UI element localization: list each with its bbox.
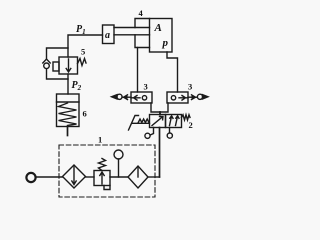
lubricator L1 internal wick [137, 168, 139, 177]
amplifier U4 main box [150, 19, 173, 53]
svg-text:2: 2 [189, 120, 193, 130]
amplifier U4 input box a [103, 25, 115, 44]
throttle 3b exhaust arrowhead [192, 95, 196, 100]
valve V2 detent baseline [133, 122, 150, 124]
wire source to filter [36, 176, 63, 178]
wire supply riser from FRL to valve 2 [159, 128, 161, 178]
gauge G1 dial [114, 150, 123, 159]
wire bypass loop around valve 5 [47, 48, 69, 79]
accumulator 6 box [57, 94, 80, 127]
wire left riser to throttle 3a [137, 48, 139, 93]
lubricator L1 diamond [128, 166, 148, 188]
svg-text:6: 6 [83, 109, 87, 119]
svg-text:3: 3 [188, 82, 192, 92]
throttle 3b exhaust triangle [203, 95, 209, 99]
regulator R1 box [94, 171, 110, 186]
wire main line valve5 to accumulator 6 [67, 74, 69, 94]
amplifier U4 rod double line [114, 27, 150, 29]
svg-text:1: 1 [98, 135, 102, 145]
valve V2 detent notches [138, 119, 149, 123]
wire regulator to lubricator [110, 176, 128, 178]
throttle 3a exhaust arrowhead [124, 95, 128, 100]
throttle 3a exhaust triangle [112, 95, 118, 99]
wire filter to regulator [86, 176, 95, 178]
throttle 3b internal arrow [179, 96, 188, 101]
wire P1 line and main vertical down to valve 5 [68, 35, 103, 57]
wire right step riser to throttle 3b [167, 52, 178, 92]
throttle 3b internal circle [171, 96, 175, 100]
svg-text:3: 3 [144, 82, 148, 92]
amplifier U4 flange outline [135, 19, 150, 28]
gauge G1 stem [118, 159, 120, 177]
throttle 3a silencer circle [117, 94, 122, 99]
check valve V7 seat [43, 59, 50, 63]
valve V2 left position box [150, 115, 166, 128]
throttle 3b silencer circle [197, 94, 202, 99]
reducing valve 5 pilot box [53, 62, 59, 71]
regulator R1 relief tab [104, 186, 110, 190]
filter F1 diamond [63, 165, 86, 188]
svg-text:5: 5 [81, 47, 85, 57]
throttle valve 3a box [131, 92, 152, 103]
regulator R1 adjust spring [99, 159, 106, 171]
throttle 3a internal arrow [131, 96, 140, 101]
throttle 3a exhaust line [122, 96, 131, 98]
svg-text:A: A [154, 22, 162, 34]
valve V2 right position box [166, 115, 182, 128]
wire stub below accumulator 6 [67, 127, 69, 136]
wire bus joining throttles to valve 2 [151, 103, 168, 112]
valve V2 lever actuator [129, 116, 139, 131]
reducing valve 5 main box [59, 57, 78, 74]
accumulator 6 spring [59, 103, 77, 126]
compressed air source [26, 173, 35, 182]
reducing valve 5 spring [78, 59, 87, 66]
check valve V7 ball [44, 63, 50, 69]
throttle valve 3b box [167, 92, 188, 103]
valve V2 return spring [182, 115, 191, 120]
filter F1 internal arrow [72, 167, 76, 185]
accumulator 6 divider [57, 101, 80, 103]
valve V2 left box flow arrow [152, 117, 163, 126]
valve V2 right exhaust circle [167, 133, 172, 138]
regulator R1 internal arrow [100, 172, 104, 184]
svg-text:a: a [105, 30, 110, 41]
wire lubricator to supply riser [148, 176, 160, 178]
throttle 3b exhaust line [188, 96, 197, 98]
reducing valve 5 internal arrow [66, 59, 71, 72]
valve V2 right box flow arrows [170, 116, 174, 126]
svg-text:p: p [162, 37, 169, 49]
valve V2 right exhaust stem [169, 128, 171, 133]
valve V2 left exhaust stem [150, 128, 153, 136]
throttle 3a internal circle [142, 96, 146, 100]
FRL unit 1 dashed enclosure [59, 145, 155, 197]
valve V2 left exhaust circle [145, 133, 150, 138]
wire port riser into valve 2 [159, 112, 161, 115]
